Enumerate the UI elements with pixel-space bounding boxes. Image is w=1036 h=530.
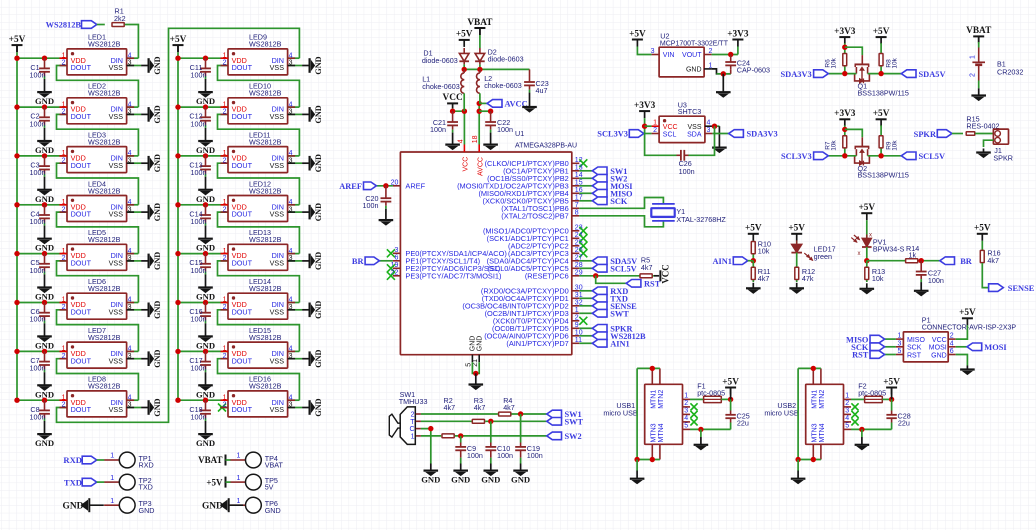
svg-text:WS2812B: WS2812B — [249, 137, 282, 146]
svg-text:U1: U1 — [515, 129, 524, 138]
svg-text:T: T — [410, 419, 415, 426]
svg-text:25: 25 — [575, 239, 583, 246]
svg-text:+5V: +5V — [722, 377, 739, 387]
svg-text:VSS: VSS — [270, 161, 285, 170]
svg-text:+5V: +5V — [629, 29, 646, 39]
svg-text:GND: GND — [686, 67, 702, 74]
svg-text:C: C — [409, 426, 414, 433]
svg-text:3: 3 — [394, 247, 398, 254]
svg-text:+3V3: +3V3 — [634, 101, 656, 111]
svg-text:8: 8 — [575, 209, 579, 216]
svg-text:DOUT: DOUT — [232, 259, 253, 268]
svg-text:1: 1 — [969, 55, 976, 59]
svg-text:RST: RST — [907, 352, 922, 359]
svg-text:5: 5 — [684, 423, 688, 430]
svg-text:100n: 100n — [527, 451, 543, 460]
svg-text:+3V3: +3V3 — [727, 29, 749, 39]
svg-text:WS2812B: WS2812B — [88, 186, 121, 195]
svg-text:+5V: +5V — [858, 203, 875, 213]
svg-text:SENSE: SENSE — [1008, 284, 1035, 293]
svg-text:100n: 100n — [30, 315, 46, 324]
svg-text:GND: GND — [153, 301, 162, 319]
svg-text:CR2032: CR2032 — [997, 68, 1023, 77]
svg-text:VSS: VSS — [109, 259, 124, 268]
svg-text:x: x — [858, 251, 861, 257]
svg-text:4k7: 4k7 — [444, 403, 456, 412]
svg-text:GND: GND — [451, 475, 470, 485]
svg-text:+5V: +5V — [745, 224, 762, 234]
svg-text:100n: 100n — [497, 451, 513, 460]
svg-text:GND: GND — [314, 301, 323, 319]
svg-text:100n: 100n — [30, 364, 46, 373]
svg-text:5: 5 — [897, 348, 901, 355]
svg-text:10k: 10k — [758, 247, 770, 256]
svg-text:WS2812B: WS2812B — [88, 382, 121, 391]
svg-text:WS2812B: WS2812B — [249, 235, 282, 244]
svg-text:MTN4: MTN4 — [658, 423, 665, 442]
svg-text:DOUT: DOUT — [71, 307, 92, 316]
svg-text:RXD: RXD — [63, 455, 82, 465]
svg-text:100n: 100n — [679, 167, 695, 176]
svg-text:BPW34-S: BPW34-S — [873, 245, 905, 254]
svg-text:VSS: VSS — [109, 405, 124, 414]
svg-text:GND: GND — [511, 475, 530, 485]
svg-text:DOUT: DOUT — [71, 161, 92, 170]
svg-text:DOUT: DOUT — [232, 63, 253, 72]
svg-text:100n: 100n — [191, 70, 207, 79]
svg-text:100n: 100n — [191, 168, 207, 177]
svg-text:100n: 100n — [30, 266, 46, 275]
svg-text:SDA3V3: SDA3V3 — [781, 70, 812, 79]
svg-text:WS2812B: WS2812B — [249, 333, 282, 342]
svg-text:2k2: 2k2 — [114, 14, 126, 23]
svg-text:GND: GND — [153, 252, 162, 270]
svg-text:ATMEGA328PB-AU: ATMEGA328PB-AU — [515, 143, 577, 150]
svg-text:VCC: VCC — [443, 93, 463, 103]
svg-text:GND: GND — [314, 203, 323, 221]
svg-text:100n: 100n — [30, 70, 46, 79]
svg-text:24: 24 — [575, 232, 583, 239]
svg-text:9: 9 — [575, 322, 579, 329]
svg-text:WS2812B: WS2812B — [88, 235, 121, 244]
svg-text:WS2812B: WS2812B — [249, 284, 282, 293]
svg-text:+5V: +5V — [206, 477, 223, 487]
svg-text:2: 2 — [969, 73, 976, 77]
svg-text:TXD: TXD — [139, 483, 153, 492]
svg-text:+5V: +5V — [883, 377, 900, 387]
svg-text:TXD: TXD — [64, 477, 82, 487]
svg-text:1: 1 — [653, 120, 657, 127]
svg-text:VOUT: VOUT — [682, 52, 702, 59]
svg-text:GND: GND — [153, 56, 162, 74]
svg-text:WS2812B: WS2812B — [249, 186, 282, 195]
svg-text:GND: GND — [931, 352, 947, 359]
svg-text:MTN3: MTN3 — [651, 423, 658, 442]
svg-text:4k7: 4k7 — [503, 403, 515, 412]
svg-text:SPKR: SPKR — [993, 153, 1013, 162]
svg-text:WS2812B: WS2812B — [88, 284, 121, 293]
svg-text:1: 1 — [236, 475, 240, 482]
svg-text:WS2812B: WS2812B — [46, 20, 82, 29]
svg-text:+5V: +5V — [170, 35, 187, 45]
svg-text:(RESET)PC6: (RESET)PC6 — [525, 272, 569, 281]
svg-text:VSS: VSS — [109, 161, 124, 170]
svg-text:choke-0603: choke-0603 — [422, 82, 460, 91]
svg-text:22u: 22u — [898, 419, 910, 428]
svg-text:DOUT: DOUT — [71, 112, 92, 121]
svg-text:100n: 100n — [191, 364, 207, 373]
svg-text:GND: GND — [421, 475, 440, 485]
svg-text:(AIN1/PTCXY)PD7: (AIN1/PTCXY)PD7 — [506, 339, 568, 348]
svg-text:4: 4 — [457, 139, 464, 143]
svg-text:+5V: +5V — [959, 308, 976, 318]
svg-text:GND: GND — [153, 350, 162, 368]
svg-text:4k7: 4k7 — [987, 256, 999, 265]
svg-text:6: 6 — [394, 254, 398, 261]
svg-text:100n: 100n — [467, 451, 483, 460]
svg-text:47k: 47k — [802, 274, 814, 283]
svg-text:GND: GND — [481, 475, 500, 485]
svg-text:GND: GND — [314, 350, 323, 368]
svg-text:MTN4: MTN4 — [819, 423, 826, 442]
svg-text:SCK: SCK — [907, 345, 922, 352]
svg-text:4: 4 — [684, 415, 688, 422]
svg-text:VSS: VSS — [109, 307, 124, 316]
svg-text:VIN: VIN — [663, 52, 675, 59]
svg-text:DOUT: DOUT — [232, 307, 253, 316]
svg-text:WS2812B: WS2812B — [88, 333, 121, 342]
svg-text:DOUT: DOUT — [71, 405, 92, 414]
svg-text:GND: GND — [63, 502, 84, 512]
svg-text:DOUT: DOUT — [71, 210, 92, 219]
svg-text:MOSI: MOSI — [984, 343, 1006, 352]
svg-text:MCP1700T-3302E/TT: MCP1700T-3302E/TT — [660, 41, 729, 48]
svg-text:100n: 100n — [497, 125, 513, 134]
svg-text:RXD: RXD — [139, 461, 154, 470]
svg-text:4k7: 4k7 — [758, 274, 770, 283]
svg-text:100n: 100n — [430, 125, 446, 134]
svg-text:MTN2: MTN2 — [658, 390, 665, 409]
svg-text:100n: 100n — [928, 276, 944, 285]
svg-text:10k: 10k — [830, 140, 837, 151]
svg-text:VSS: VSS — [109, 210, 124, 219]
svg-text:SCL3V3: SCL3V3 — [597, 130, 628, 139]
svg-text:GND: GND — [35, 438, 54, 448]
svg-text:BR: BR — [960, 257, 973, 266]
svg-text:GND: GND — [153, 105, 162, 123]
svg-text:SWT: SWT — [565, 418, 584, 427]
svg-text:AIN1: AIN1 — [610, 340, 630, 349]
svg-text:100n: 100n — [191, 217, 207, 226]
svg-text:SCK: SCK — [610, 197, 628, 206]
svg-text:100n: 100n — [30, 412, 46, 421]
svg-text:23: 23 — [575, 224, 583, 231]
svg-text:DOUT: DOUT — [232, 405, 253, 414]
svg-text:WS2812B: WS2812B — [249, 40, 282, 49]
svg-text:WS2812B: WS2812B — [88, 40, 121, 49]
svg-text:WS2812B: WS2812B — [88, 137, 121, 146]
svg-text:AIN1: AIN1 — [712, 257, 732, 266]
svg-text:10k: 10k — [872, 274, 884, 283]
svg-text:12: 12 — [575, 157, 583, 164]
svg-text:3: 3 — [897, 340, 901, 347]
svg-text:10k: 10k — [830, 57, 837, 68]
svg-text:100n: 100n — [191, 266, 207, 275]
svg-text:VSS: VSS — [109, 356, 124, 365]
svg-text:BSS138PW/115: BSS138PW/115 — [858, 88, 909, 97]
svg-text:10k: 10k — [892, 140, 899, 151]
svg-text:P1: P1 — [922, 316, 931, 325]
svg-text:green: green — [814, 252, 832, 261]
svg-text:MTN1: MTN1 — [812, 390, 819, 409]
svg-text:100n: 100n — [191, 119, 207, 128]
svg-text:CONNECTOR-AVR-ISP-2X3P: CONNECTOR-AVR-ISP-2X3P — [922, 324, 1017, 331]
svg-text:VSS: VSS — [270, 405, 285, 414]
svg-text:BSS138PW/115: BSS138PW/115 — [858, 171, 909, 180]
svg-text:2: 2 — [575, 314, 579, 321]
svg-text:1k: 1k — [909, 251, 917, 260]
svg-text:ptc-0805: ptc-0805 — [858, 389, 886, 398]
svg-text:GND: GND — [153, 154, 162, 172]
svg-text:RST: RST — [852, 351, 869, 360]
svg-text:VBAT: VBAT — [265, 461, 284, 470]
svg-text:SPKR: SPKR — [914, 130, 937, 139]
svg-text:+5V: +5V — [974, 224, 991, 234]
svg-text:1: 1 — [411, 434, 415, 441]
svg-text:4k7: 4k7 — [474, 403, 486, 412]
svg-text:1: 1 — [110, 453, 114, 460]
svg-text:+5V: +5V — [873, 27, 890, 37]
svg-text:DOUT: DOUT — [232, 161, 253, 170]
svg-text:GND: GND — [153, 203, 162, 221]
svg-text:SCL5V: SCL5V — [610, 265, 637, 274]
svg-text:1: 1 — [684, 393, 688, 400]
svg-text:1: 1 — [236, 498, 240, 505]
svg-text:4u7: 4u7 — [536, 86, 548, 95]
svg-text:100n: 100n — [191, 315, 207, 324]
svg-text:3: 3 — [845, 408, 849, 415]
svg-text:4: 4 — [845, 415, 849, 422]
svg-text:VBAT: VBAT — [966, 26, 992, 36]
svg-text:SDA: SDA — [687, 131, 702, 138]
svg-text:CAP-0603: CAP-0603 — [737, 66, 770, 75]
svg-text:SCL: SCL — [663, 131, 677, 138]
svg-text:RST: RST — [644, 280, 661, 289]
svg-text:U2: U2 — [660, 32, 669, 41]
svg-text:PE3(PTCY/ADC7/T3/MOSI1): PE3(PTCY/ADC7/T3/MOSI1) — [405, 272, 501, 281]
svg-text:+3V3: +3V3 — [834, 109, 856, 119]
svg-text:VSS: VSS — [109, 112, 124, 121]
svg-text:100n: 100n — [30, 168, 46, 177]
svg-text:4k7: 4k7 — [641, 263, 653, 272]
svg-text:+5V: +5V — [456, 30, 473, 40]
svg-text:diode-0603: diode-0603 — [488, 55, 524, 64]
svg-text:SWT: SWT — [610, 310, 629, 319]
svg-text:WS2812B: WS2812B — [249, 89, 282, 98]
svg-text:18: 18 — [472, 135, 479, 143]
svg-text:DOUT: DOUT — [71, 356, 92, 365]
svg-text:VSS: VSS — [270, 112, 285, 121]
svg-text:GND: GND — [314, 154, 323, 172]
svg-text:100n: 100n — [191, 412, 207, 421]
svg-text:1: 1 — [110, 475, 114, 482]
svg-text:+3V3: +3V3 — [834, 27, 856, 37]
svg-text:+5V: +5V — [9, 35, 26, 45]
svg-text:GND: GND — [314, 56, 323, 74]
svg-text:AVCC: AVCC — [478, 157, 485, 176]
svg-text:AREF: AREF — [339, 182, 362, 191]
svg-text:GND: GND — [476, 336, 483, 352]
svg-text:choke-0603: choke-0603 — [484, 81, 522, 90]
svg-text:VSS: VSS — [687, 124, 701, 131]
svg-text:100n: 100n — [30, 217, 46, 226]
svg-text:GND: GND — [202, 502, 223, 512]
svg-text:MOSI: MOSI — [929, 345, 947, 352]
svg-text:GND: GND — [265, 506, 281, 515]
svg-text:2: 2 — [684, 400, 688, 407]
svg-text:VSS: VSS — [109, 63, 124, 72]
svg-text:WS2812B: WS2812B — [249, 382, 282, 391]
svg-text:3: 3 — [684, 408, 688, 415]
svg-text:(XTAL2/TOSC2)PB7: (XTAL2/TOSC2)PB7 — [501, 212, 569, 221]
svg-text:6: 6 — [950, 348, 954, 355]
svg-text:MTN1: MTN1 — [651, 390, 658, 409]
svg-text:VCC: VCC — [663, 124, 678, 131]
svg-text:2: 2 — [845, 400, 849, 407]
svg-text:SW2: SW2 — [565, 432, 582, 441]
svg-text:MTN2: MTN2 — [819, 390, 826, 409]
svg-text:VBAT: VBAT — [198, 455, 222, 465]
svg-text:WS2812B: WS2812B — [88, 89, 121, 98]
svg-text:26: 26 — [575, 247, 583, 254]
svg-text:VSS: VSS — [270, 259, 285, 268]
svg-text:GND: GND — [153, 398, 162, 416]
svg-text:SDA5V: SDA5V — [919, 70, 946, 79]
svg-text:MTN3: MTN3 — [812, 423, 819, 442]
svg-text:1: 1 — [575, 307, 579, 314]
svg-text:22u: 22u — [737, 419, 749, 428]
svg-text:DOUT: DOUT — [71, 63, 92, 72]
svg-text:VCC: VCC — [463, 157, 470, 172]
svg-text:4: 4 — [950, 340, 954, 347]
svg-text:SDA3V3: SDA3V3 — [747, 130, 778, 139]
svg-text:SHTC3: SHTC3 — [678, 107, 702, 116]
svg-text:3: 3 — [651, 48, 655, 55]
svg-text:DOUT: DOUT — [232, 356, 253, 365]
svg-text:DOUT: DOUT — [232, 112, 253, 121]
svg-text:VCC: VCC — [932, 337, 947, 344]
svg-text:100n: 100n — [30, 119, 46, 128]
svg-text:DOUT: DOUT — [232, 210, 253, 219]
svg-text:micro USB: micro USB — [764, 409, 799, 418]
svg-text:5V: 5V — [265, 483, 274, 492]
svg-text:XTAL-32768HZ: XTAL-32768HZ — [676, 215, 726, 224]
svg-text:+5V: +5V — [788, 224, 805, 234]
svg-text:GND: GND — [314, 105, 323, 123]
svg-text:5: 5 — [845, 423, 849, 430]
svg-text:2: 2 — [411, 412, 415, 419]
svg-text:GND: GND — [314, 252, 323, 270]
svg-text:1: 1 — [897, 333, 901, 340]
svg-text:GND: GND — [196, 438, 215, 448]
svg-text:VSS: VSS — [270, 307, 285, 316]
svg-text:VCC: VCC — [661, 264, 671, 284]
svg-text:SCL3V3: SCL3V3 — [781, 152, 812, 161]
svg-text:7: 7 — [575, 202, 579, 209]
svg-text:2: 2 — [950, 333, 954, 340]
svg-text:ptc-0805: ptc-0805 — [697, 389, 725, 398]
svg-text:1: 1 — [110, 498, 114, 505]
svg-text:GND: GND — [139, 506, 155, 515]
svg-text:AREF: AREF — [405, 182, 425, 191]
svg-text:VSS: VSS — [270, 356, 285, 365]
svg-text:BR: BR — [352, 257, 365, 266]
svg-text:micro USB: micro USB — [603, 409, 638, 418]
svg-text:diode-0603: diode-0603 — [422, 56, 458, 65]
svg-text:MISO: MISO — [907, 337, 925, 344]
svg-text:DOUT: DOUT — [71, 259, 92, 268]
svg-text:1: 1 — [236, 453, 240, 460]
svg-text:100n: 100n — [363, 201, 379, 210]
svg-text:SCL5V: SCL5V — [919, 152, 946, 161]
svg-text:+5V: +5V — [873, 109, 890, 119]
svg-text:x: x — [869, 233, 872, 239]
svg-text:TMHU33: TMHU33 — [399, 397, 428, 406]
svg-text:VSS: VSS — [270, 63, 285, 72]
svg-text:GND: GND — [314, 398, 323, 416]
svg-text:1: 1 — [845, 393, 849, 400]
svg-text:VBAT: VBAT — [467, 18, 493, 28]
svg-text:10k: 10k — [892, 57, 899, 68]
svg-text:VSS: VSS — [270, 210, 285, 219]
